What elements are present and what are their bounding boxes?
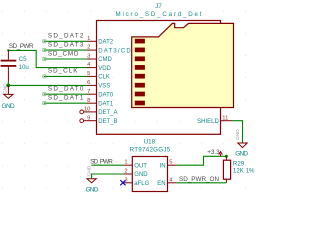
- junction at capacitor top: [7, 49, 9, 51]
- U18 pin 3 aFLG: [123, 177, 149, 187]
- svg-text:J7: J7: [155, 3, 162, 10]
- wire SD_DAT2: [44, 40, 87, 42]
- svg-text:SD_CLK: SD_CLK: [48, 68, 78, 75]
- svg-text:DAT2: DAT2: [98, 40, 114, 46]
- svg-text:1: 1: [87, 36, 90, 42]
- svg-text:+3.3: +3.3: [207, 149, 220, 156]
- svg-text:SD_PWR: SD_PWR: [90, 158, 113, 165]
- svg-text:1: 1: [124, 160, 127, 166]
- card contact pads: [135, 39, 145, 106]
- svg-text:11: 11: [222, 116, 228, 122]
- wire cap to junction: [7, 81, 9, 85]
- wire SD_PWR to VDD: [8, 50, 87, 67]
- no-connect cross: [120, 180, 125, 185]
- wire SD_DAT0: [44, 93, 87, 95]
- svg-text:VDD: VDD: [98, 66, 111, 72]
- svg-text:DAT1: DAT1: [98, 101, 114, 107]
- wire SD_CLK: [44, 75, 87, 77]
- svg-text:SD_PWR: SD_PWR: [9, 43, 34, 50]
- svg-text:GND: GND: [235, 129, 241, 140]
- micro SD card drawing: [132, 23, 234, 107]
- J7 pin 6 VSS: [87, 80, 110, 90]
- J7 pin 4 VDD: [87, 62, 112, 72]
- svg-text:CLK: CLK: [98, 75, 110, 81]
- J7 pin 7 DAT0: [87, 89, 114, 99]
- svg-text:10u: 10u: [19, 64, 30, 71]
- ground symbol (top right): [235, 129, 247, 148]
- svg-text:GND: GND: [86, 165, 92, 176]
- svg-text:SHIELD: SHIELD: [197, 119, 219, 125]
- svg-text:9: 9: [87, 115, 90, 121]
- svg-text:5: 5: [169, 160, 172, 166]
- wire GND pin2: [92, 174, 124, 179]
- wire SD_DAT1: [44, 102, 87, 104]
- wire VSS: [8, 84, 87, 86]
- svg-text:7: 7: [87, 89, 90, 95]
- svg-text:CMD: CMD: [98, 57, 112, 63]
- svg-text:aFLG: aFLG: [134, 181, 149, 187]
- regulator U18 body: [132, 157, 167, 192]
- svg-text:DAT3/CD: DAT3/CD: [98, 48, 131, 54]
- svg-text:GND: GND: [2, 103, 16, 110]
- svg-text:U18: U18: [144, 138, 156, 145]
- U18 pin 2 GND: [123, 169, 148, 179]
- J7 pin 1 DAT2: [87, 36, 114, 46]
- svg-text:DAT0: DAT0: [98, 92, 114, 98]
- power symbol +3.3: [219, 152, 223, 157]
- svg-text:RT9742GGJ5: RT9742GGJ5: [130, 146, 171, 153]
- ground symbol (left): [2, 83, 13, 99]
- J7 pin 9 DET_B (unconnected): [80, 115, 118, 125]
- svg-text:2: 2: [87, 45, 90, 51]
- U18 pin 5 IN: [160, 160, 177, 170]
- svg-text:10: 10: [84, 107, 90, 113]
- svg-text:DET_A: DET_A: [98, 110, 117, 116]
- svg-text:SD_CMD: SD_CMD: [48, 50, 79, 57]
- svg-text:VSS: VSS: [98, 84, 110, 90]
- svg-text:GND: GND: [134, 172, 148, 178]
- connector J7 body: [97, 21, 221, 135]
- svg-text:C5: C5: [19, 56, 27, 63]
- J7 pin 2 DAT3/CD: [87, 45, 131, 55]
- junction: [6, 84, 10, 88]
- U18 pin 4 EN: [157, 177, 176, 187]
- J7 pin 3 CMD: [87, 54, 113, 64]
- svg-text:SD_DAT0: SD_DAT0: [48, 86, 84, 93]
- wire SD_PWR to OUT: [92, 164, 124, 166]
- wire IN to +3.3: [176, 156, 226, 165]
- svg-text:SD_DAT3: SD_DAT3: [48, 41, 84, 48]
- svg-text:12K 1%: 12K 1%: [233, 167, 255, 174]
- J7 pin 10 DET_A (unconnected): [80, 107, 118, 117]
- svg-text:6: 6: [87, 80, 90, 86]
- svg-text:2: 2: [124, 169, 127, 175]
- svg-text:Micro_SD_Card_Det: Micro_SD_Card_Det: [116, 11, 202, 18]
- wire SD_CMD: [44, 58, 87, 60]
- wire SD_DAT3: [44, 49, 87, 51]
- svg-text:GND: GND: [2, 83, 8, 94]
- svg-text:SD_DAT1: SD_DAT1: [48, 95, 84, 102]
- svg-text:OUT: OUT: [134, 163, 147, 169]
- svg-text:SD_DAT2: SD_DAT2: [48, 33, 84, 40]
- U18 pin 1 OUT: [123, 160, 147, 170]
- svg-text:IN: IN: [160, 163, 166, 169]
- svg-text:8: 8: [87, 98, 90, 104]
- svg-text:3: 3: [87, 54, 90, 60]
- J7 pin 11 SHIELD: [197, 116, 231, 125]
- svg-text:GND: GND: [235, 150, 248, 157]
- junction at R29 top: [225, 155, 228, 158]
- svg-text:GND: GND: [86, 187, 99, 194]
- grid dots: [2, 11, 246, 189]
- wire SHIELD to GND: [232, 121, 243, 143]
- resistor R29: [223, 156, 230, 183]
- svg-text:5: 5: [87, 71, 90, 77]
- J7 pin 8 DAT1: [87, 98, 114, 108]
- svg-text:SD_PWR_ON: SD_PWR_ON: [179, 176, 219, 183]
- svg-text:DET_B: DET_B: [98, 119, 117, 125]
- J7 pin 5 CLK: [87, 71, 110, 81]
- capacitor C5: [1, 50, 17, 81]
- ground symbol (middle): [86, 165, 96, 182]
- wire SD_PWR_ON: [176, 182, 226, 184]
- svg-text:EN: EN: [157, 181, 165, 187]
